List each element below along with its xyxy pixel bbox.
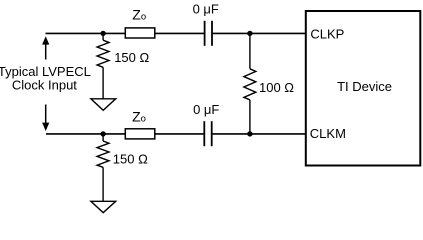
node junction dot bottom-left [100, 131, 105, 136]
arrow up (LVPECL input marker top) [42, 36, 49, 59]
resistor R 100 ohm (zigzag vertical between rails) [244, 33, 256, 133]
svg-text:150 Ω: 150 Ω [114, 50, 149, 65]
capacitor C bottom plates [203, 121, 205, 146]
svg-text:CLKM: CLKM [310, 126, 346, 141]
arrow down (LVPECL input marker bottom) [42, 105, 49, 132]
capacitor C top plates [204, 21, 206, 46]
wire bottom rail left segment [46, 133, 125, 135]
svg-text:Typical LVPECL: Typical LVPECL [0, 64, 91, 79]
node junction dot top-left [100, 31, 105, 36]
resistor Zo top (box) [125, 28, 155, 38]
node junction dot top-right [247, 31, 252, 36]
resistor Zo bottom (box) [125, 129, 155, 139]
wire bottom rail right segment [212, 133, 306, 135]
svg-text:TI Device: TI Device [337, 79, 392, 94]
wire bottom rail middle segment [155, 133, 204, 135]
svg-text:0 μF: 0 μF [193, 102, 219, 117]
wire top rail middle segment [155, 32, 205, 34]
svg-text:Clock Input: Clock Input [12, 78, 77, 93]
ground bottom [91, 201, 116, 212]
resistor R 150 ohm bottom (zigzag) [97, 134, 109, 201]
svg-text:100 Ω: 100 Ω [259, 80, 294, 95]
svg-text:0 μF: 0 μF [193, 1, 219, 16]
svg-text:CLKP: CLKP [310, 27, 344, 42]
svg-text:150 Ω: 150 Ω [113, 151, 148, 166]
wire top rail left segment [46, 32, 126, 34]
wire top rail right segment [212, 32, 306, 34]
ground top [91, 99, 116, 111]
TI Device box U1 [306, 11, 421, 166]
resistor R 150 ohm top (zigzag) [97, 33, 109, 98]
node junction dot bottom-right [247, 131, 252, 136]
